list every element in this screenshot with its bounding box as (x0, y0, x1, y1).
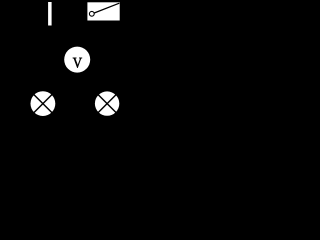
lamp L1 cross stroke NE-SW (33, 94, 53, 114)
voltmeter V1 body (64, 47, 90, 73)
switch S1 box (87, 2, 119, 20)
switch S1 lever (94, 3, 119, 13)
voltmeter V1 label V (73, 58, 82, 68)
lamp L1 cross stroke NW-SE (33, 94, 53, 114)
cell plate (battery) (48, 2, 52, 26)
lamp L2 cross stroke NW-SE (97, 94, 117, 114)
lamp L2 cross stroke NE-SW (97, 94, 117, 114)
lamp L1 body (31, 91, 56, 116)
lamp L2 body (95, 91, 119, 115)
switch S1 pivot terminal (89, 11, 94, 16)
